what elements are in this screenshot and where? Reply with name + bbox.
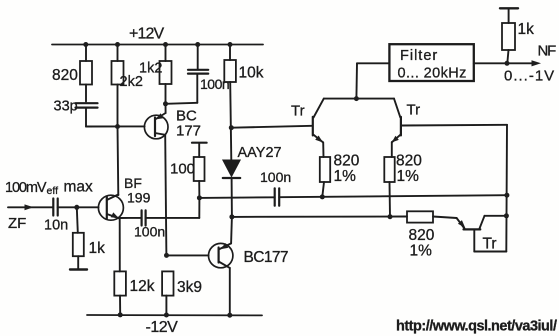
svg-text:1%: 1% (397, 168, 420, 185)
svg-text:http://www.qsl.net/va3iul/: http://www.qsl.net/va3iul/ (396, 319, 557, 335)
svg-text:100n: 100n (134, 224, 165, 240)
svg-text:1%: 1% (410, 243, 433, 260)
svg-text:100n: 100n (200, 76, 229, 92)
svg-text:177: 177 (176, 123, 201, 140)
svg-text:1%: 1% (334, 168, 357, 185)
svg-text:AAY27: AAY27 (238, 145, 282, 161)
svg-text:0... 20kHz: 0... 20kHz (398, 66, 467, 82)
svg-text:3k9: 3k9 (177, 279, 202, 296)
svg-text:Filter: Filter (400, 48, 438, 64)
svg-text:12k: 12k (130, 278, 155, 295)
svg-text:820: 820 (334, 153, 360, 170)
svg-text:Tr: Tr (407, 102, 421, 119)
svg-text:1k: 1k (518, 21, 535, 38)
svg-text:10n: 10n (44, 218, 68, 234)
svg-text:820: 820 (409, 227, 435, 244)
svg-text:max: max (64, 179, 94, 196)
svg-text:Tr: Tr (483, 236, 497, 253)
svg-text:eff: eff (47, 185, 59, 197)
svg-text:33p: 33p (54, 99, 78, 115)
svg-text:1k: 1k (89, 240, 106, 257)
svg-text:BC177: BC177 (244, 249, 288, 266)
svg-text:820: 820 (52, 67, 78, 84)
svg-text:-12V: -12V (146, 319, 179, 336)
svg-text:10k: 10k (239, 65, 264, 82)
svg-text:1k2: 1k2 (139, 61, 162, 77)
svg-text:Tr: Tr (291, 103, 305, 120)
svg-text:100: 100 (170, 161, 195, 178)
svg-text:NF: NF (538, 43, 557, 60)
svg-text:+12V: +12V (129, 26, 164, 43)
svg-text:199: 199 (127, 190, 151, 206)
svg-text:0...-1V: 0...-1V (504, 68, 555, 85)
svg-text:ZF: ZF (8, 215, 26, 232)
svg-text:100n: 100n (260, 169, 291, 185)
svg-text:820: 820 (396, 153, 422, 170)
svg-text:100mV: 100mV (5, 180, 47, 196)
